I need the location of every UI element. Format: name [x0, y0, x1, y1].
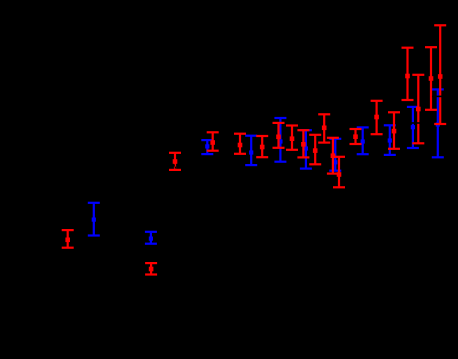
red series A errorbar point 9 (x=303.4)	[297, 130, 309, 157]
red series A errorbar point 2 (x=151.1)	[145, 263, 157, 274]
blue series B errorbar point 2 (x=150.9)	[145, 232, 157, 244]
black overlay notch on red bar at x=175	[174, 164, 175, 166]
red series A errorbar point 18 (x=418.3)	[412, 75, 424, 144]
red series A errorbar point 4 (x=212.7)	[207, 132, 219, 150]
red series A errorbar point 13 (x=339)	[333, 157, 345, 188]
red series A errorbar point 5 (x=240)	[234, 134, 246, 154]
black overlay notch crossing bars near x=439	[432, 96, 446, 98]
red series A errorbar point 20 (x=440.2)	[434, 25, 446, 124]
red series A errorbar point 3 (x=175)	[169, 153, 181, 170]
red series A errorbar point 15 (x=376.6)	[371, 101, 383, 134]
blue series B errorbar point 10 (x=412.9)	[407, 107, 419, 148]
red series A errorbar point 17 (x=407.5)	[402, 48, 414, 100]
blue series B errorbar point 7 (x=335.3)	[329, 139, 341, 171]
blue series B errorbar point 5 (x=280.4)	[274, 118, 286, 162]
red series A errorbar point 1 (x=67.7)	[62, 230, 74, 248]
red series A errorbar point 19 (x=431)	[425, 47, 437, 110]
red series A errorbar point 8 (x=292)	[286, 126, 298, 150]
red series A errorbar point 11 (x=324.2)	[318, 114, 330, 142]
blue series B errorbar point 9 (x=389.8)	[384, 125, 396, 155]
red series A errorbar point 6 (x=262.2)	[256, 136, 268, 157]
blue series B errorbar point 4 (x=251.2)	[245, 136, 257, 165]
red series A errorbar point 14 (x=355.5)	[350, 129, 362, 144]
blue series B errorbar point 1 (x=93.8)	[88, 203, 100, 236]
red series A errorbar point 10 (x=315.2)	[309, 135, 321, 165]
red series A errorbar point 16 (x=394)	[388, 112, 400, 149]
red series A errorbar point 7 (x=278.5)	[273, 123, 285, 148]
blue series B errorbar point 3 (x=207.3)	[201, 140, 213, 154]
blue series B errorbar point 6 (x=305.9)	[300, 130, 312, 168]
blue series B errorbar point 8 (x=362.7)	[357, 127, 369, 154]
blue series B errorbar point 11 (x=437.8)	[432, 89, 444, 157]
black overlay notch crossing bars near x=413	[406, 122, 420, 124]
red series A errorbar point 12 (x=332.9)	[327, 138, 339, 174]
